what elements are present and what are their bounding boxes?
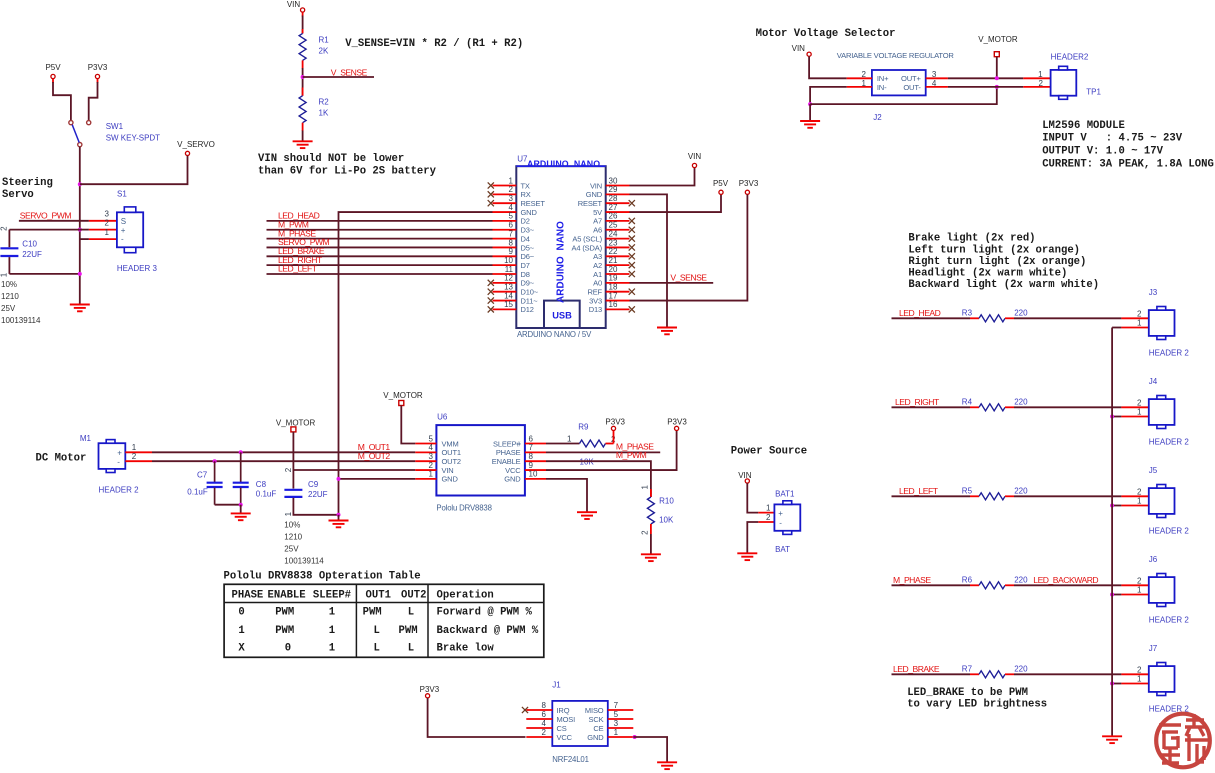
wire (892, 673, 971, 675)
svg-text:V_SENSE: V_SENSE (670, 272, 707, 282)
svg-text:A7: A7 (593, 217, 602, 226)
pin 1 J7 (1121, 675, 1148, 684)
pin 6 D3~ (493, 221, 535, 235)
svg-text:D5~: D5~ (521, 243, 535, 252)
svg-text:PWM: PWM (275, 625, 294, 637)
svg-text:R2: R2 (319, 98, 330, 107)
pin 22 A3 (593, 247, 635, 261)
svg-text:2: 2 (105, 218, 110, 227)
svg-text:2: 2 (1137, 310, 1142, 319)
svg-text:22UF: 22UF (308, 490, 328, 499)
pin 5 SCK (589, 710, 634, 724)
svg-text:P3V3: P3V3 (88, 63, 108, 72)
wire (1014, 317, 1121, 319)
net label LED_HEAD (278, 211, 320, 221)
svg-text:SLEEP#: SLEEP# (493, 439, 521, 448)
svg-text:2: 2 (429, 461, 434, 470)
svg-text:100139114: 100139114 (1, 316, 41, 325)
junction (1110, 593, 1114, 597)
net label LED_LEFT (899, 486, 939, 496)
svg-text:18: 18 (609, 283, 618, 292)
svg-text:R10: R10 (659, 497, 674, 506)
net label LED_LEFT (278, 264, 318, 274)
svg-text:OUT1: OUT1 (366, 589, 391, 601)
pin 1 J6 (1121, 586, 1148, 595)
pin 1 TP (1023, 70, 1050, 79)
svg-text:S1: S1 (117, 190, 127, 199)
net label V_SENSE (331, 67, 368, 77)
pin 2 J5 (1121, 488, 1148, 497)
svg-text:27: 27 (609, 203, 618, 212)
capacitor C7 (187, 461, 222, 505)
capacitor C8 (233, 452, 277, 504)
resistor R10 (641, 485, 675, 535)
wire (240, 505, 242, 514)
capacitor C9 (284, 467, 328, 516)
svg-text:10: 10 (529, 470, 538, 479)
pin 2 TP (1023, 79, 1050, 88)
svg-text:L: L (408, 643, 414, 655)
wire (948, 77, 1023, 79)
svg-text:1: 1 (429, 470, 434, 479)
svg-text:A3: A3 (593, 252, 602, 261)
svg-text:Steering: Steering (2, 177, 53, 189)
svg-text:2: 2 (1137, 577, 1142, 586)
svg-text:USB: USB (552, 311, 572, 321)
svg-text:8: 8 (509, 238, 514, 247)
pin 2 J7 (1121, 666, 1148, 675)
net label SERVO_PWM (278, 237, 330, 247)
svg-text:3: 3 (509, 194, 514, 203)
net label LED_BRAKE (893, 664, 940, 674)
svg-text:1: 1 (1137, 408, 1142, 417)
svg-text:2: 2 (1137, 399, 1142, 408)
pin 26 A7 (593, 212, 635, 226)
pin 1 IN- (847, 79, 872, 88)
pin 7 D4 (493, 229, 530, 243)
wire (1014, 673, 1121, 675)
wire (152, 460, 415, 462)
power V_MOTOR (383, 391, 423, 405)
pin 11 D8 (493, 265, 530, 279)
svg-text:1: 1 (641, 485, 650, 490)
junction (337, 513, 341, 517)
resistor R3 220 (962, 308, 1028, 322)
svg-text:M_OUT2: M_OUT2 (358, 451, 391, 461)
svg-text:J3: J3 (1149, 288, 1158, 297)
svg-text:10K: 10K (659, 516, 674, 525)
svg-text:D8: D8 (521, 270, 530, 279)
pin 9 D6~ (493, 247, 535, 261)
svg-text:D7: D7 (521, 261, 530, 270)
svg-text:VMM: VMM (442, 439, 459, 448)
svg-text:1: 1 (766, 503, 771, 512)
label C10 attrs (1, 280, 41, 325)
header J7 (1149, 644, 1190, 714)
svg-text:1210: 1210 (1, 292, 19, 301)
svg-text:V_MOTOR: V_MOTOR (978, 35, 1018, 44)
svg-text:1K: 1K (319, 109, 329, 118)
svg-text:C7: C7 (197, 471, 208, 480)
wire (892, 584, 971, 586)
wire (1112, 416, 1121, 418)
svg-text:M_PHASE: M_PHASE (893, 575, 931, 585)
resistor R5 220 (962, 486, 1028, 500)
wire bus (1111, 328, 1113, 737)
pin 10 D7 (493, 256, 530, 270)
svg-text:P5V: P5V (713, 179, 729, 188)
label C9 attrs (284, 521, 324, 566)
wire (152, 451, 415, 453)
wire (630, 195, 748, 301)
svg-text:Pololu DRV8838 Opteration Tabl: Pololu DRV8838 Opteration Table (224, 570, 421, 582)
svg-text:SERVO_PWM: SERVO_PWM (20, 210, 72, 220)
svg-text:3: 3 (105, 210, 110, 219)
ground (329, 521, 349, 528)
pin 17 3V3 (589, 291, 629, 305)
svg-text:RESET: RESET (578, 199, 603, 208)
wire (892, 317, 971, 319)
pin 2 J6 (1121, 577, 1148, 586)
svg-text:8: 8 (529, 452, 534, 461)
svg-text:16: 16 (609, 300, 618, 309)
header M1 (80, 434, 139, 494)
wire (996, 57, 998, 79)
svg-text:R9: R9 (578, 423, 589, 432)
pin 5 D2 (493, 212, 530, 226)
ground (577, 512, 597, 519)
wire (302, 16, 304, 34)
junction (78, 182, 82, 186)
svg-text:4: 4 (932, 79, 937, 88)
pin 28 RESET (578, 194, 635, 208)
svg-text:Motor Voltage Selector: Motor Voltage Selector (756, 28, 896, 40)
svg-text:29: 29 (609, 185, 618, 194)
pin 4 OUT- (926, 79, 948, 88)
svg-text:Backward light (2x warm white): Backward light (2x warm white) (908, 279, 1099, 291)
svg-text:ENABLE: ENABLE (268, 589, 306, 601)
svg-text:1: 1 (238, 625, 244, 637)
pin 2 J3 (1121, 310, 1148, 319)
pin 13 D10~ (488, 283, 539, 297)
junction (1110, 504, 1114, 508)
svg-text:1: 1 (329, 643, 335, 655)
svg-text:9: 9 (509, 247, 514, 256)
pin 2 S1 (89, 218, 117, 229)
svg-text:X: X (238, 643, 245, 655)
svg-text:than 6V for Li-Po 2S battery: than 6V for Li-Po 2S battery (258, 166, 437, 178)
svg-text:ARDUINO NANO: ARDUINO NANO (556, 221, 567, 303)
power VIN (287, 0, 305, 17)
svg-text:LED_BRAKE to be PWM: LED_BRAKE to be PWM (907, 687, 1028, 699)
wire (80, 156, 188, 184)
svg-text:+: + (778, 509, 783, 518)
svg-text:6: 6 (542, 710, 547, 719)
pin 21 A2 (593, 256, 635, 270)
pin 15 D12 (488, 300, 534, 314)
wire (303, 76, 374, 78)
svg-text:22UF: 22UF (22, 250, 42, 259)
svg-text:220: 220 (1014, 575, 1028, 584)
junction (78, 228, 82, 232)
wire (630, 195, 722, 212)
junction (995, 76, 999, 80)
ground (657, 328, 677, 335)
wire (892, 406, 971, 408)
resistor R4 220 (962, 397, 1028, 411)
svg-text:R4: R4 (962, 397, 973, 406)
svg-text:6: 6 (529, 434, 534, 443)
svg-text:IN-: IN- (877, 83, 887, 92)
svg-text:D11~: D11~ (521, 296, 539, 305)
wire (546, 461, 651, 497)
power P3V3 (420, 685, 440, 698)
pin 2 VCC (526, 728, 572, 742)
wire (80, 229, 89, 231)
svg-text:D12: D12 (521, 305, 534, 314)
wire (215, 504, 241, 506)
seal stamp (1156, 714, 1210, 768)
svg-text:D4: D4 (521, 234, 530, 243)
wire (1112, 327, 1121, 329)
svg-text:4: 4 (542, 719, 547, 728)
svg-text:LM2596 MODULE: LM2596 MODULE (1042, 120, 1125, 132)
svg-text:HEADER 2: HEADER 2 (1149, 527, 1190, 536)
svg-text:J2: J2 (873, 113, 882, 122)
svg-text:1: 1 (1137, 675, 1142, 684)
svg-text:P3V3: P3V3 (739, 179, 759, 188)
pin 2 RX (488, 185, 531, 199)
svg-text:P3V3: P3V3 (667, 418, 687, 427)
svg-text:J1: J1 (552, 680, 561, 689)
svg-text:HEADER 2: HEADER 2 (1149, 616, 1190, 625)
svg-text:25: 25 (609, 221, 618, 230)
ground (70, 305, 90, 312)
pin 3 OUT+ (926, 70, 948, 79)
svg-text:12: 12 (504, 274, 513, 283)
label Steering Servo (2, 177, 53, 201)
header S1 (117, 190, 158, 273)
power P3V3 (605, 418, 625, 431)
svg-text:1: 1 (105, 228, 110, 237)
svg-text:Left turn light (2x orange): Left turn light (2x orange) (908, 244, 1080, 256)
power V_SERVO (177, 140, 215, 155)
wire (338, 515, 340, 521)
resistor R6 220 (962, 575, 1028, 589)
pin 3 CE (593, 719, 633, 733)
svg-text:Right turn light (2x orange): Right turn light (2x orange) (908, 256, 1086, 268)
pin 2 M1 (125, 452, 152, 461)
svg-text:VCC: VCC (505, 466, 521, 475)
ground (641, 554, 661, 561)
svg-text:P3V3: P3V3 (420, 685, 440, 694)
header J6 (1149, 555, 1190, 625)
header J4 (1149, 377, 1190, 447)
svg-text:to vary LED brightness: to vary LED brightness (907, 699, 1047, 711)
svg-text:TX: TX (521, 181, 530, 190)
svg-text:PWM: PWM (363, 607, 382, 619)
resistor R7 220 (962, 664, 1028, 678)
svg-text:11: 11 (505, 265, 514, 274)
svg-text:2: 2 (0, 226, 8, 231)
net label V_SENSE (670, 272, 707, 282)
wire (302, 131, 304, 142)
pin 1 TX (488, 176, 530, 190)
pin 24 A5 (SCL) (572, 229, 635, 243)
svg-text:MOSI: MOSI (557, 715, 576, 724)
svg-text:9: 9 (529, 461, 534, 470)
svg-text:1: 1 (329, 607, 335, 619)
svg-text:VCC: VCC (557, 733, 573, 742)
svg-text:2: 2 (132, 452, 137, 461)
wire (546, 443, 580, 445)
net label M_PHASE (893, 575, 931, 585)
pin 27 5V (593, 203, 629, 217)
svg-text:Backward @ PWM %: Backward @ PWM % (437, 625, 539, 637)
svg-text:LED_RIGHT: LED_RIGHT (895, 397, 940, 407)
svg-text:R7: R7 (962, 664, 973, 673)
net label M_OUT1 (358, 442, 391, 452)
svg-text:OUT1: OUT1 (442, 448, 461, 457)
wire (809, 57, 847, 79)
svg-text:23: 23 (609, 238, 618, 247)
pin 7 MISO (585, 701, 633, 715)
svg-text:C8: C8 (256, 480, 267, 489)
svg-text:M1: M1 (80, 434, 92, 443)
svg-text:Pololu DRV8838: Pololu DRV8838 (436, 504, 491, 513)
svg-text:Forward @ PWM %: Forward @ PWM % (437, 607, 533, 619)
svg-text:A5 (SCL): A5 (SCL) (572, 234, 602, 243)
note formula (345, 38, 523, 50)
svg-text:100139114: 100139114 (284, 557, 324, 566)
svg-text:0: 0 (285, 643, 291, 655)
svg-text:VIN: VIN (590, 181, 602, 190)
svg-text:GND: GND (587, 733, 604, 742)
svg-text:D13: D13 (589, 305, 602, 314)
svg-text:S: S (121, 217, 126, 226)
svg-text:22: 22 (609, 247, 618, 256)
svg-text:D3~: D3~ (521, 226, 535, 235)
svg-text:LED_BRAKE: LED_BRAKE (893, 664, 940, 674)
wire (1014, 584, 1121, 586)
svg-text:PHASE: PHASE (232, 589, 264, 601)
svg-text:+: + (117, 449, 122, 458)
ground (800, 121, 820, 128)
pin 25 A6 (593, 221, 635, 235)
svg-text:5: 5 (509, 212, 514, 221)
svg-text:A4 (SDA): A4 (SDA) (572, 243, 603, 252)
svg-text:1: 1 (284, 511, 293, 516)
pin 9 VCC (505, 461, 546, 475)
svg-text:NRF24L01: NRF24L01 (552, 755, 589, 764)
svg-text:BAT1: BAT1 (775, 490, 795, 499)
pin 2 VIN (415, 461, 453, 475)
pin 8 IRQ (526, 701, 569, 715)
svg-text:7: 7 (529, 443, 534, 452)
svg-text:8: 8 (542, 701, 547, 710)
pin 3 S1 (89, 210, 117, 221)
net label LED_RIGHT (895, 397, 940, 407)
power V_MOTOR (978, 35, 1018, 57)
wire (630, 282, 714, 284)
op-amp U7 ARDUINO NANO (516, 155, 605, 340)
svg-text:PWM: PWM (275, 607, 294, 619)
svg-text:HEADER 2: HEADER 2 (1149, 349, 1190, 358)
svg-text:D10~: D10~ (521, 288, 539, 297)
svg-text:R5: R5 (962, 486, 973, 495)
note battery (258, 153, 437, 178)
svg-text:6: 6 (509, 221, 514, 230)
svg-text:1: 1 (567, 435, 572, 444)
svg-text:CS: CS (557, 724, 567, 733)
svg-text:10: 10 (504, 256, 513, 265)
svg-text:OUT+: OUT+ (901, 74, 921, 83)
svg-text:1210: 1210 (284, 533, 302, 542)
pin 4 CS (526, 719, 566, 733)
pin 1 GND (415, 470, 458, 484)
svg-text:V_MOTOR: V_MOTOR (383, 391, 423, 400)
svg-text:J7: J7 (1149, 644, 1158, 653)
note table title (224, 570, 421, 582)
label DC Motor (36, 453, 87, 465)
op-amp J1 NRF24L01 (552, 680, 608, 764)
ground (1102, 736, 1122, 743)
svg-text:HEADER 2: HEADER 2 (99, 485, 140, 494)
pin 6 MOSI (526, 710, 575, 724)
svg-text:R3: R3 (962, 308, 973, 317)
pin 2 J4 (1121, 399, 1148, 408)
svg-text:A2: A2 (593, 261, 602, 270)
note LM2596 (1042, 120, 1214, 171)
svg-text:A1: A1 (593, 270, 602, 279)
junction (633, 735, 637, 739)
header J5 (1149, 466, 1190, 536)
svg-text:SCK: SCK (589, 715, 604, 724)
note title (731, 445, 807, 457)
power P5V (713, 179, 729, 194)
svg-text:L: L (408, 607, 414, 619)
svg-text:M_PWM: M_PWM (616, 450, 647, 460)
svg-text:VIN: VIN (442, 466, 454, 475)
svg-text:V_MOTOR: V_MOTOR (276, 418, 316, 427)
ground (737, 553, 757, 560)
ground (293, 141, 313, 148)
power P3V3 (739, 179, 759, 194)
svg-text:21: 21 (609, 256, 618, 265)
pin 3 OUT2 (415, 452, 461, 466)
svg-text:P5V: P5V (45, 63, 61, 72)
wire (53, 82, 71, 120)
svg-text:3: 3 (614, 719, 619, 728)
svg-text:OUT-: OUT- (903, 83, 921, 92)
wire (948, 86, 1023, 88)
wire (1112, 683, 1121, 685)
svg-text:HEADER 2: HEADER 2 (1149, 438, 1190, 447)
svg-text:LED_HEAD: LED_HEAD (899, 308, 941, 318)
svg-text:PWM: PWM (399, 625, 418, 637)
svg-text:OUT2: OUT2 (401, 589, 426, 601)
svg-text:-: - (117, 458, 120, 467)
pin 23 A4 (SDA) (572, 238, 635, 252)
svg-text:C10: C10 (22, 239, 37, 248)
wire (19, 220, 89, 222)
op-amp U6 DRV8838 (436, 413, 525, 513)
pin 19 A0 (593, 274, 629, 288)
wire (1112, 505, 1121, 507)
note LED list (908, 233, 1099, 291)
svg-text:J5: J5 (1149, 466, 1158, 475)
table DRV8838 operation (224, 584, 544, 657)
